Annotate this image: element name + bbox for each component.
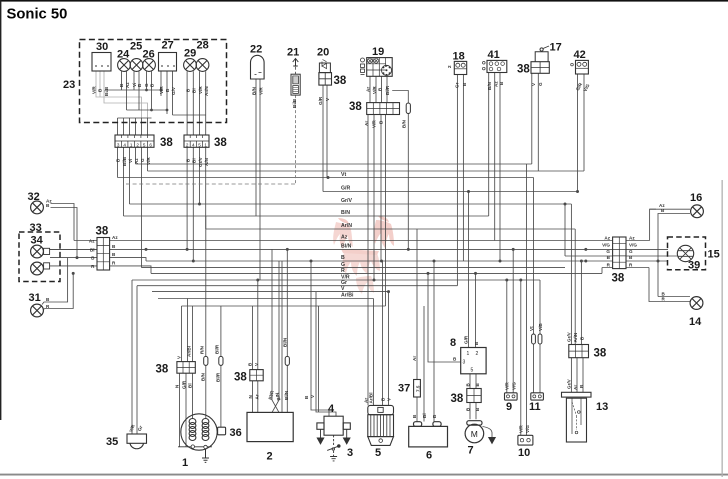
pin numbers of 8 [463,351,479,374]
wire labels of 4 [304,394,315,399]
svg-text:7.5: 7.5 [415,385,420,392]
connector 38L [97,238,110,271]
wire lamp22 B/N [255,79,257,216]
wire lamp31 R [43,273,73,309]
wire labels inside box 23 [92,82,210,96]
wire bus R [151,272,602,274]
dashed enclosure 23 [80,40,227,123]
wire labels of 14 [662,291,666,301]
wire label B/N resistor [402,119,407,128]
twin lamp 34 lower [31,262,50,275]
wire 11 Vt [533,178,535,393]
wire lamp28 drops [200,71,206,135]
svg-text:37: 37 [398,383,410,395]
svg-text:V/R: V/R [146,157,151,165]
connector 38B pin numbers [186,142,208,147]
svg-text:V: V [341,286,345,292]
svg-text:Gr/V: Gr/V [198,156,203,167]
svg-text:G: G [140,158,145,162]
warning lamp 28 [196,59,209,72]
svg-text:19: 19 [372,46,384,58]
wire labels left of 38L [89,239,95,269]
wire 21 drop dashed [295,95,297,184]
svg-text:Ar: Ar [366,87,371,92]
svg-text:26: 26 [143,49,155,61]
svg-text:Bi: Bi [192,88,197,93]
wire box23 gray B [104,71,148,118]
svg-text:17: 17 [550,42,562,54]
wire labels of 6 [412,413,437,418]
svg-text:Bi/B: Bi/B [104,86,109,96]
wire 19 Bl/R down [385,115,387,307]
wire 10 V/G [526,164,528,435]
svg-text:Gr: Gr [455,82,460,88]
wire pin p3 38A [129,147,131,204]
ground left of coil 4 [317,429,324,444]
svg-text:42: 42 [574,49,586,61]
wire kill switch lead [318,306,320,412]
svg-text:9: 9 [506,401,512,413]
wire 41 Az [494,73,496,241]
svg-text:V/B: V/B [538,323,543,331]
instrument cluster 19 [361,58,393,77]
connector 38 of 19 [367,103,400,115]
svg-text:B/N: B/N [402,119,407,128]
svg-text:Bl/R: Bl/R [215,372,220,382]
svg-text:28: 28 [197,40,209,52]
svg-text:18: 18 [453,51,465,63]
connector 38 of CDI [250,370,263,381]
wire 19 B down [380,115,382,262]
svg-text:B/N: B/N [200,372,205,381]
svg-text:Vt: Vt [341,172,346,178]
svg-text:35: 35 [106,436,118,448]
wire labels of 35 [128,423,143,433]
wire fuse37 to battery [416,397,418,422]
wire labels right of 38R [629,235,637,267]
svg-text:Bl/R: Bl/R [214,344,219,354]
wire lamp14 B [658,296,690,298]
dashed enclosure 33 [19,232,60,282]
connector 38B [184,135,209,147]
svg-text:38: 38 [517,64,530,76]
instrument unit 27 [159,53,177,72]
wire lamp22 V/R [259,79,261,280]
svg-text:2: 2 [476,351,479,357]
wire 11 V/B [539,280,541,393]
wire lamp32 B [51,208,78,258]
svg-text:2: 2 [447,65,452,68]
wire lamp24 drops [122,71,127,110]
ground of motor 7 [489,438,496,444]
resistor of 19 [406,103,410,114]
svg-text:V/G: V/G [602,242,610,247]
svg-text:Bi/B: Bi/B [292,98,297,108]
svg-text:8: 8 [450,337,456,349]
wire resistor to Bl/N [407,114,409,250]
wire fuse37 top [416,229,418,380]
wire pin p5 38A [141,147,143,267]
wire labels fuse R/N [199,345,205,381]
wire fuse R/N [205,216,207,419]
wire 42 V/G [583,74,585,171]
svg-text:Az: Az [629,235,635,240]
horn button 17 bracket [535,46,549,62]
ground of magneto 1 [202,449,209,463]
twin lamp 34 upper [31,245,50,258]
wire pin p2 38A [123,147,125,216]
svg-text:16: 16 [690,192,702,204]
wire labels of 22 [251,86,263,95]
svg-text:38: 38 [214,137,227,149]
svg-text:3: 3 [347,447,353,459]
svg-text:R/N: R/N [199,345,204,354]
svg-text:30: 30 [96,41,108,53]
pickup 36 [218,427,226,435]
fuse 37 [414,380,421,398]
fuel level sensor 13 [562,392,592,442]
wire lamp26 drops [147,71,152,110]
wire pin q4 38B [205,147,207,229]
wire labels of 11 [529,323,543,331]
wire bus G/R [323,191,578,193]
wire labels of 17 [531,82,543,86]
svg-text:Ar/Bl: Ar/Bl [187,346,192,357]
wire bus V/R [132,279,540,281]
svg-text:Gr/V: Gr/V [341,198,352,204]
wire 27 drops [161,71,173,115]
diode unit 20 [319,60,330,73]
wire labels of CDI [248,337,289,401]
svg-text:G/R: G/R [181,380,186,389]
wire label of 21 [292,98,297,108]
wire lamp31 B [42,258,68,305]
svg-text:15: 15 [708,249,720,261]
warning lamp 24 [118,59,131,72]
svg-text:1: 1 [182,457,188,469]
svg-text:38: 38 [451,393,464,405]
svg-text:G: G [144,83,149,87]
wire bus Ar/Bi [158,298,374,300]
wire 13 Ar\N riser [574,229,576,345]
svg-text:G/R: G/R [318,96,323,105]
border frame left [0,0,1,420]
svg-text:38: 38 [349,101,362,113]
inline fuse Bl/R [219,356,223,365]
wire 19 to conn [370,76,387,102]
kill switch 3 [327,435,340,461]
svg-text:6: 6 [426,450,432,462]
wire labels of 42 [575,81,591,92]
svg-text:M: M [471,429,478,439]
svg-text:10: 10 [518,447,530,459]
wire labels of 18 [447,65,467,88]
svg-text:5: 5 [471,368,474,374]
wire 19 Ar down [367,115,369,406]
svg-text:38: 38 [160,137,173,149]
battery 6 [409,422,448,447]
svg-text:Ar/N: Ar/N [204,86,209,96]
svg-text:G: G [606,249,610,254]
svg-text:38: 38 [96,226,109,238]
wire labels of 41 [487,81,504,90]
svg-text:V/G: V/G [512,382,517,390]
svg-text:Bl: Bl [188,383,193,388]
svg-text:1: 1 [467,351,470,357]
wire box23 bus3 [173,114,206,116]
wire conn38-2 to CDI [253,381,258,413]
wire 18 B [462,75,464,262]
svg-text:B/N: B/N [341,210,350,216]
starter button 9 [505,393,518,400]
wire box23 bus2 [127,109,168,111]
wire 17 G [537,73,539,171]
inline fuse Vt of 11 [532,334,536,344]
svg-text:R: R [341,268,345,274]
svg-text:33: 33 [30,222,42,234]
front lamp 16 [691,205,704,218]
wire fuse Bl/R [220,306,222,427]
svg-text:Ar: Ar [573,385,578,390]
wire lamp16 B [658,214,690,297]
wire box23 gray A [96,71,142,118]
svg-text:Az: Az [134,158,139,164]
svg-text:B/N: B/N [251,86,256,95]
svg-text:Bl/B: Bl/B [122,156,127,166]
svg-text:Az: Az [604,235,610,240]
svg-text:V/G: V/G [629,242,637,247]
svg-text:V/R: V/R [159,86,164,94]
svg-text:B/N: B/N [487,81,492,90]
svg-text:B: B [341,255,345,261]
brake switch 11 [531,393,544,400]
wire bus B [146,260,668,262]
wire CDI B/N riser [281,261,283,412]
svg-text:A/N: A/N [204,157,209,166]
svg-text:2: 2 [186,142,189,147]
wire labels below 19 connector [364,120,384,128]
wire bus Vt [118,177,534,179]
svg-text:3: 3 [117,142,120,147]
svg-text:G/V: G/V [171,86,176,95]
wire lamp32 Az [51,204,75,241]
wire bus Gr/V [130,203,572,205]
flasher unit 21 [291,59,300,96]
regulator 5 [368,405,394,445]
wire labels of 13 connector [566,331,584,342]
wire coil B [311,261,329,416]
wire labels of 9 [504,382,516,390]
wire magneto N riser [192,306,194,362]
wire labels left of 38R [602,235,611,267]
tail lamp 14 [690,297,703,310]
wire 19 resistor branch [392,91,408,104]
svg-text:14: 14 [689,316,702,328]
headlamp 39 [677,245,693,261]
svg-text:5: 5 [375,447,381,459]
wire labels of 16 [659,203,665,213]
wire labels below 38B [185,156,209,167]
svg-text:11: 11 [529,401,541,413]
wire box23 pin feeders [118,118,148,135]
svg-text:Az: Az [112,235,118,240]
wire CDI V [257,280,259,370]
svg-text:Vi: Vi [128,159,133,163]
svg-text:Gr/V: Gr/V [566,378,571,389]
svg-text:V/G: V/G [525,425,530,433]
svg-text:20: 20 [317,47,329,59]
svg-text:Sonic 50: Sonic 50 [7,7,68,23]
wire lower link bus [182,305,386,307]
wire horn V/R [131,280,133,434]
wire labels 19 to connector [366,85,390,95]
wire 21 antenna dashed [295,67,297,75]
wire CDI B [252,306,254,370]
starter relay 8 [461,348,486,374]
svg-text:24: 24 [117,49,130,61]
wire Az to lamp16 [650,209,690,240]
wire lamp16 Az stub [650,208,656,210]
wire relay to conn38-8 [470,374,476,389]
svg-text:V/R: V/R [92,86,97,94]
wire magneto Ar/Bl riser [187,299,189,362]
warning lamp 26 [143,59,156,72]
dashed enclosure 15 [668,237,706,270]
wire regulator Ar/Bl [373,299,375,406]
wire row5 38L [50,266,151,274]
svg-text:4: 4 [123,142,126,147]
wire G row to lamp 39 [565,204,677,256]
wire bus Ar\N [206,228,576,230]
wire bus H1 [136,163,532,165]
wire box23 gray C [99,71,101,97]
wire magneto V riser [181,306,183,362]
svg-text:Az: Az [341,235,348,241]
connector 38 of 13 [569,345,589,358]
svg-text:38: 38 [334,75,347,87]
wire labels fuse Bl/R [214,344,220,382]
pilot light unit 30 [92,53,111,72]
wire 17 V [531,73,533,164]
wire 9 V/R [506,280,508,393]
svg-text:21: 21 [287,47,299,59]
wire bus Bl/N [50,248,668,250]
svg-text:4: 4 [328,403,335,415]
connector 38R [613,237,626,269]
svg-text:Ar\N: Ar\N [573,332,578,342]
wire labels of 32 [46,198,52,208]
junction node dots [327,176,330,179]
wire lamp34a to 38L [50,248,97,250]
svg-text:25: 25 [130,41,142,53]
inline fuse Bl/N [285,356,289,365]
svg-text:G: G [538,82,543,86]
wire battery Bl [423,306,425,422]
wire pin p6 38A [147,147,149,171]
connector 38 of 20 [319,73,332,86]
connector 38 of 17 [531,62,549,74]
svg-text:G/R: G/R [463,335,468,344]
wire lamp14 R [649,268,690,302]
svg-text:Ar/Bi: Ar/Bi [341,293,354,299]
wire bus G [142,267,566,269]
wire box23 bus1 [107,89,161,91]
wire relay pin3 link [428,273,461,362]
connector 38A pin numbers [117,142,152,147]
svg-text:27: 27 [162,40,174,52]
wire labels of 10 [518,425,530,433]
svg-text:7: 7 [468,445,474,457]
wire box23 joiner [118,90,168,118]
svg-text:Vt: Vt [529,326,534,331]
svg-text:1: 1 [204,142,207,147]
svg-text:38: 38 [156,364,169,376]
svg-text:Az: Az [493,81,498,87]
svg-text:23: 23 [63,79,75,91]
ignition coil 4 [317,416,350,435]
wire row R 38R [602,268,649,274]
svg-text:1: 1 [130,142,133,147]
wire bus B/N [124,215,489,217]
svg-text:Gr/V: Gr/V [566,331,571,342]
wire pin q3 38B [199,147,201,204]
wire bus V [152,291,389,293]
bus wire name labels [341,172,354,299]
watermark eagle logo [333,216,394,294]
wire regulator V [388,292,390,406]
svg-text:Bl/N: Bl/N [283,337,288,347]
wire bus H2 [148,170,585,172]
svg-text:4: 4 [192,142,195,147]
border frame top [0,0,728,2]
warning lamp 25 [130,59,143,72]
label 7.5 of fuse 37 [415,385,420,392]
wire lamp29 drops [187,71,193,135]
svg-text:G: G [629,249,633,254]
wire 20 V [326,85,328,178]
wire labels of 8 [453,335,479,361]
wire relay G/R [468,192,470,348]
wire labels of 31 [46,297,50,309]
wire horn Gr [136,286,138,434]
wire label Ar fuse37 [412,356,417,361]
wire flasher dashed [126,183,296,185]
svg-text:22: 22 [250,44,262,56]
brake switch 10 [518,435,533,445]
svg-text:32: 32 [28,191,40,203]
svg-text:Bl/N: Bl/N [341,244,352,250]
wire motor ground lead [483,427,493,438]
wire pin p1 38A [117,147,119,177]
wire labels of 5 [363,393,391,404]
wire 19 V/R down [373,115,375,281]
svg-text:Ar: Ar [255,394,260,399]
svg-text:2: 2 [267,451,273,463]
CDI unit 2 [247,412,293,441]
svg-text:39: 39 [688,260,700,272]
border frame right [722,180,723,477]
svg-text:6: 6 [149,142,152,147]
wire bus Gr [137,285,457,287]
wire 41 B [499,73,501,262]
connector 38 of relay 8 [467,389,481,403]
wire regulator B [382,261,384,405]
wire pin q1 38B [186,147,188,249]
wire labels below 38A [116,156,152,166]
svg-text:29: 29 [184,48,196,60]
wire 41 B/N [488,73,490,217]
wire labels of magneto connector [175,346,193,389]
